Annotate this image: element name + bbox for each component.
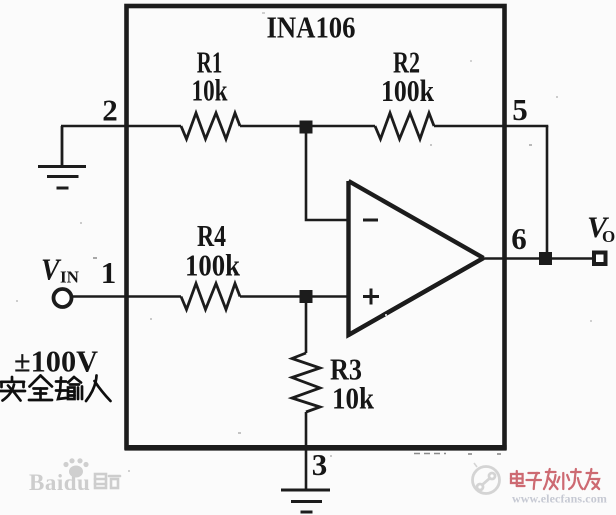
wire minus input from node A bbox=[306, 133, 348, 220]
char shao bbox=[562, 473, 564, 489]
wire R1 to node A to R2 bbox=[240, 125, 375, 128]
wire VIN to R4 bbox=[71, 295, 181, 298]
wire feedback vertical bbox=[546, 126, 549, 259]
svg-text:100k: 100k bbox=[185, 248, 241, 283]
resistor R3 bbox=[292, 353, 320, 412]
watermark elecfans text bbox=[511, 469, 599, 489]
svg-text:1: 1 bbox=[101, 255, 117, 290]
svg-text:10k: 10k bbox=[332, 381, 375, 416]
svg-text:3: 3 bbox=[312, 447, 328, 482]
wire pin2 row: ground to R1 bbox=[61, 125, 181, 128]
char ru bbox=[86, 376, 111, 402]
node B junction (output) bbox=[539, 252, 552, 265]
svg-text:±100V: ±100V bbox=[14, 345, 98, 379]
svg-text:6: 6 bbox=[511, 221, 527, 256]
svg-text:2: 2 bbox=[102, 93, 118, 128]
char shu bbox=[56, 377, 82, 399]
IC outline box U1 INA106 bbox=[127, 6, 505, 448]
char zi bbox=[528, 472, 539, 474]
wire R2 to feedback corner bbox=[434, 125, 548, 128]
label anquan shuru (Chinese: safe input) bbox=[0, 376, 111, 402]
terminal VIN circle bbox=[54, 289, 72, 307]
op-amp U1 triangle bbox=[349, 181, 484, 335]
svg-text:INA106: INA106 bbox=[267, 10, 356, 45]
svg-text:www.elecfans.com: www.elecfans.com bbox=[512, 492, 607, 506]
ground G1 stub bbox=[61, 126, 64, 167]
watermark baidu baike bbox=[29, 458, 120, 495]
resistor R2 bbox=[375, 113, 434, 139]
svg-text:10k: 10k bbox=[192, 73, 229, 108]
wire node C down to R3 bbox=[305, 297, 308, 354]
svg-text:IN: IN bbox=[60, 268, 80, 287]
char quan bbox=[29, 376, 52, 401]
wire output row bbox=[483, 257, 593, 260]
svg-text:5: 5 bbox=[512, 92, 528, 127]
svg-text:V: V bbox=[41, 252, 62, 287]
wire R4 to node C to plus input bbox=[240, 295, 348, 298]
ground G1 bbox=[38, 167, 86, 189]
watermark elecfans logo bbox=[473, 463, 500, 494]
svg-text:100k: 100k bbox=[381, 73, 435, 108]
char you bbox=[587, 472, 598, 474]
char fa bbox=[546, 471, 556, 473]
scan artifact ticks on bottom edge bbox=[414, 453, 501, 456]
node A junction bbox=[300, 121, 313, 134]
op-amp minus symbol bbox=[363, 219, 378, 222]
op-amp plus symbol bbox=[363, 289, 379, 305]
resistor R4 bbox=[181, 284, 240, 310]
terminal VO square bbox=[594, 253, 606, 265]
char dian bbox=[511, 474, 523, 483]
resistor R1 bbox=[181, 113, 240, 139]
ground G2 bbox=[281, 490, 330, 512]
char an bbox=[0, 377, 25, 401]
wire R3 to ground G2 bbox=[305, 412, 308, 490]
svg-text:O: O bbox=[602, 227, 615, 246]
node C junction bbox=[300, 290, 313, 303]
